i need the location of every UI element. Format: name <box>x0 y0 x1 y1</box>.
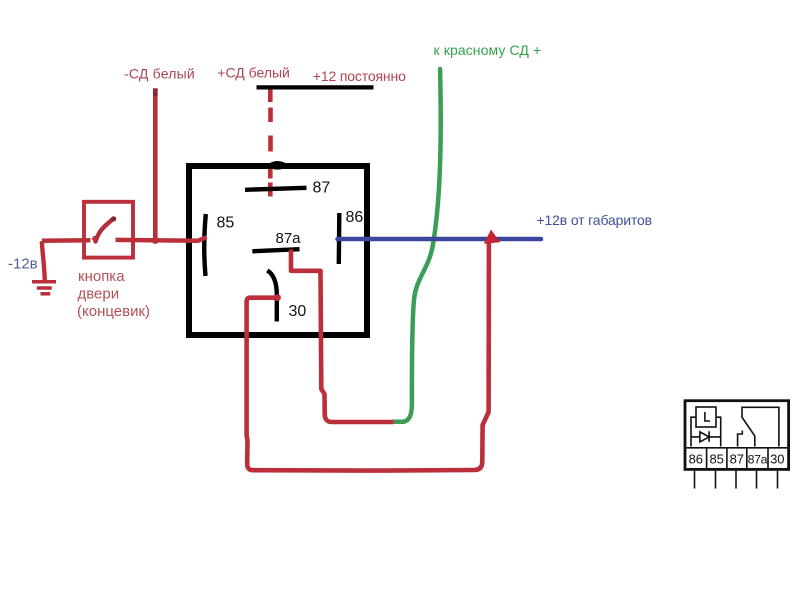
junction blob at -СД wire and switch wire <box>152 237 159 244</box>
wire: green к красному СД <box>393 69 441 422</box>
svg-text:(концевик): (концевик) <box>77 303 150 320</box>
dark cap at top of -СД wire <box>153 88 158 96</box>
inset cell dividers <box>706 448 708 468</box>
svg-text:85: 85 <box>217 215 235 232</box>
arrow junction on blue wire <box>484 230 500 244</box>
svg-text:87: 87 <box>730 452 744 467</box>
wire: red from ground corner to switch <box>42 238 91 243</box>
relay K1 outline <box>189 166 367 335</box>
switch lever <box>96 219 114 242</box>
inset coil bracket wires <box>691 417 721 446</box>
inset label row top line <box>686 447 787 449</box>
inset pins below box <box>694 471 696 489</box>
inset switch arm <box>742 417 756 437</box>
wire: red from switch to pin 85 <box>116 237 207 240</box>
switch lever foot <box>92 236 97 241</box>
switch S1 box (кнопка двери) <box>84 202 133 258</box>
inset diode <box>691 431 721 442</box>
inset pin labels <box>689 452 785 467</box>
blob where dashed wire meets relay top border <box>269 161 287 170</box>
wire: red loop from pin 30 to blue-wire junction <box>247 242 489 471</box>
wire: red dashed +СД белый vertical <box>268 89 273 197</box>
inset coil box <box>696 407 716 427</box>
pin 85 terminal <box>204 214 206 276</box>
wire: red -СД белый vertical <box>153 89 158 242</box>
svg-text:30: 30 <box>770 452 784 467</box>
svg-text:+12в от габаритов: +12в от габаритов <box>537 212 652 228</box>
svg-text:к красному СД +: к красному СД + <box>434 42 542 58</box>
wire: blue +12в от габаритов <box>338 237 542 242</box>
svg-text:85: 85 <box>709 452 723 467</box>
svg-text:30: 30 <box>289 303 307 320</box>
svg-text:87a: 87a <box>276 230 302 247</box>
inset outer box <box>685 401 789 470</box>
switch lever tip <box>111 216 116 221</box>
svg-text:двери: двери <box>78 286 120 303</box>
svg-text:кнопка: кнопка <box>78 268 125 285</box>
inset 87a contact stub <box>754 436 756 446</box>
svg-text:86: 86 <box>689 452 703 467</box>
pin 87a terminal <box>252 249 299 251</box>
wire: black +12 постоянно supply bar <box>257 85 374 89</box>
pin 30 terminal <box>267 271 277 322</box>
inset switch top rail and pin 30 drop <box>742 407 779 446</box>
svg-text:-12в: -12в <box>8 255 38 272</box>
svg-text:+12 постоянно: +12 постоянно <box>313 68 406 84</box>
svg-text:87: 87 <box>313 180 331 197</box>
svg-text:87a: 87a <box>748 453 768 467</box>
pin 87 terminal <box>245 188 307 190</box>
junction dot where red wire meets pin 30 <box>274 294 281 301</box>
svg-text:86: 86 <box>346 209 364 226</box>
wire: red drop to ground <box>42 241 45 280</box>
inset 87 contact stub <box>738 431 743 447</box>
relay pinout inset <box>685 401 789 489</box>
svg-text:-СД белый: -СД белый <box>124 65 195 81</box>
ground symbol <box>32 282 56 294</box>
pin 86 terminal <box>337 213 342 264</box>
inset coil mark <box>705 412 710 421</box>
wire: red from pin 87a down to green junction <box>291 250 394 423</box>
svg-text:+СД белый: +СД белый <box>217 65 290 81</box>
